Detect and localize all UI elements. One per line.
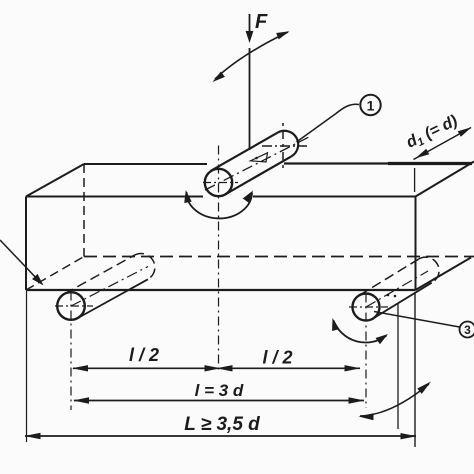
svg-text:l / 2: l / 2 xyxy=(129,345,159,365)
svg-text:l / 2: l / 2 xyxy=(262,348,292,368)
svg-text:l = 3 d: l = 3 d xyxy=(195,381,244,400)
svg-text:F: F xyxy=(255,11,268,33)
svg-text:3: 3 xyxy=(464,323,471,337)
svg-text:L ≥ 3,5 d: L ≥ 3,5 d xyxy=(184,414,260,435)
svg-text:1: 1 xyxy=(367,98,375,114)
